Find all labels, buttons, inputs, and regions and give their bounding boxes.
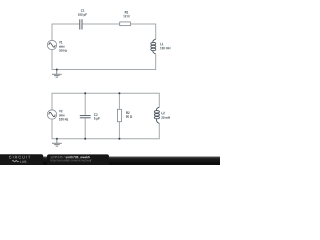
wire top rail from V2 top to L2 top <box>52 93 159 110</box>
label C2 name <box>94 113 98 116</box>
label R1 value <box>123 15 129 17</box>
node: junction R2 bottom <box>118 138 120 140</box>
node: junction R2 top <box>118 92 120 94</box>
resistor R1 <box>120 22 131 26</box>
logo CIRCUIT text <box>9 156 30 159</box>
watermark text line 2 url <box>51 159 92 162</box>
label V1 name <box>59 41 63 43</box>
label C1 value <box>78 13 87 16</box>
wire from C1 to R1 <box>82 23 119 25</box>
watermark text line 1 user <box>51 156 65 158</box>
ground for top circuit <box>52 70 62 78</box>
label V2 name <box>59 110 62 112</box>
inductor L1 <box>151 39 156 54</box>
voltage source V1 <box>47 40 56 49</box>
label L2 value <box>161 116 170 119</box>
label V2 frequency <box>59 118 68 121</box>
label V1 type <box>59 45 65 48</box>
label V1 frequency <box>59 49 67 52</box>
inductor L2 <box>154 107 159 123</box>
watermark text line 1 circuit name <box>66 156 90 159</box>
wire R2 branch <box>118 93 120 139</box>
label L2 name <box>162 112 165 114</box>
logo wave glyph <box>12 161 18 162</box>
wire from R1 along top rail and down right rail to L1 top <box>131 24 156 39</box>
wire C2 branch <box>84 93 86 139</box>
wire from L1 bottom down right rail, along bottom rail, up to V1 bottom <box>52 50 156 70</box>
watermark text box <box>47 154 109 165</box>
voltage source V2 <box>47 110 56 119</box>
wire bottom rail from V2 bottom to L2 bottom <box>52 119 159 139</box>
node: ground junction on top-circuit bottom rail <box>56 69 58 71</box>
label L1 name <box>160 43 163 45</box>
label L1 value <box>160 47 170 50</box>
label R2 name <box>126 112 129 114</box>
node: junction C2 bottom <box>84 138 86 140</box>
wire from V1 top up left rail and along top rail to C1 <box>52 24 79 40</box>
resistor R2 <box>117 109 121 121</box>
label V2 type <box>59 114 65 117</box>
watermark full-width bottom strip <box>0 156 220 165</box>
node: junction C2 top <box>84 92 86 94</box>
label R2 value <box>126 115 132 118</box>
capacitor C2 <box>80 116 91 118</box>
ground for bottom circuit <box>52 139 62 146</box>
watermark logo box <box>0 154 43 165</box>
label C1 name <box>81 9 85 12</box>
node: ground junction on bottom rail <box>56 138 58 140</box>
label R1 name <box>125 11 128 13</box>
logo LAB text <box>20 161 26 163</box>
label C2 value <box>94 117 100 120</box>
capacitor C1 <box>80 19 82 29</box>
